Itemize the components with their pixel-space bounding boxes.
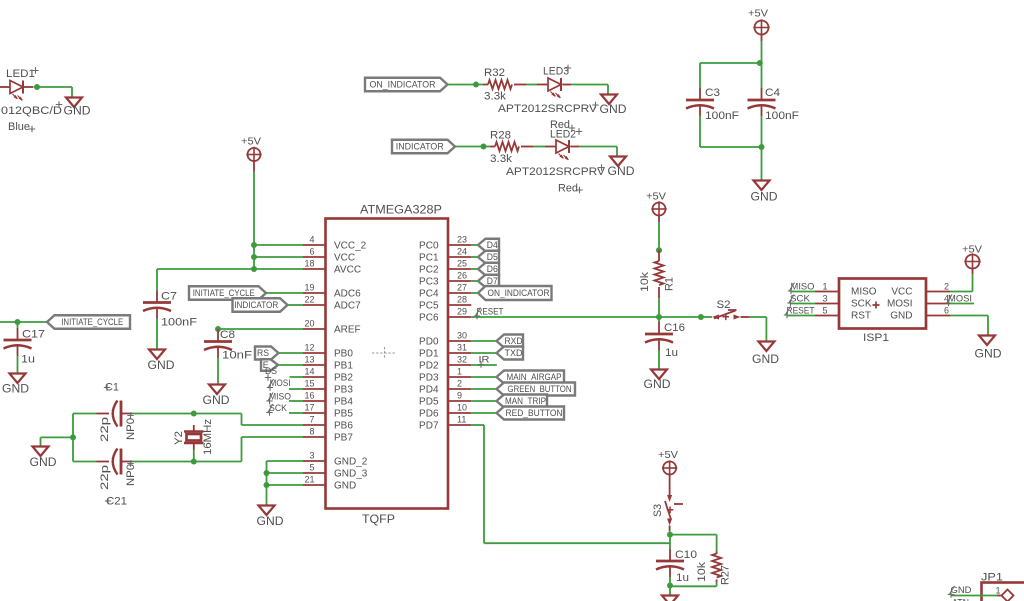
ground (C16)	[644, 370, 671, 392]
net flag ON_INDICATOR (PC4)	[478, 286, 552, 300]
wire down	[765, 317, 767, 342]
wire pin 32 IR net	[471, 364, 497, 366]
svg-text:NP0: NP0	[125, 418, 137, 440]
wire pin 11 PD7	[471, 424, 484, 426]
svg-text:1u: 1u	[21, 354, 35, 366]
svg-text:10: 10	[457, 403, 467, 413]
svg-text:15: 15	[304, 379, 314, 389]
svg-text:25: 25	[457, 259, 467, 269]
svg-text:C10: C10	[675, 549, 697, 561]
node RESET at R1/C16	[656, 314, 662, 320]
wire to ground	[761, 147, 763, 181]
wire down	[607, 85, 609, 95]
switch S3	[652, 495, 683, 531]
C21 cross	[105, 498, 111, 504]
svg-text:21: 21	[304, 475, 314, 485]
net flag D4	[478, 239, 499, 252]
svg-text:26: 26	[457, 271, 467, 281]
ground (C10, clipped at page bottom)	[662, 596, 678, 601]
svg-text:8: 8	[309, 427, 314, 437]
svg-text:PB5: PB5	[334, 409, 353, 420]
svg-text:INITIATE_CYCLE: INITIATE_CYCLE	[193, 288, 255, 298]
svg-text:Y2: Y2	[173, 431, 185, 445]
svg-text:Red: Red	[558, 183, 578, 195]
IC pin 15 PB3	[303, 379, 353, 396]
IC pin 1 PD3	[419, 367, 471, 384]
node on wire at R32	[473, 82, 479, 88]
wire PD7 down	[483, 425, 485, 543]
node LED1 cathode junction	[34, 84, 40, 90]
svg-text:TXD: TXD	[505, 348, 523, 358]
ISP1 pin 3 SCK	[815, 294, 872, 310]
svg-text:PC1: PC1	[419, 253, 439, 264]
ground (crystal)	[30, 447, 57, 470]
svg-text:PD0: PD0	[419, 337, 439, 348]
wire AREF row	[218, 328, 303, 330]
svg-text:MAIN_AIRGAP: MAIN_AIRGAP	[507, 372, 562, 382]
wire GND vertical	[266, 461, 268, 506]
IC pin 8 PB7	[303, 427, 353, 444]
wire stub pin 17	[289, 412, 303, 414]
svg-text:20: 20	[304, 319, 314, 329]
net label MISO (PB4)	[266, 392, 291, 405]
net flag D7	[478, 275, 499, 288]
svg-text:C4: C4	[765, 87, 780, 99]
IC pin 23 PC0	[419, 235, 471, 252]
svg-text:6: 6	[944, 306, 949, 316]
wire pin to D4 flag	[471, 244, 478, 246]
LED LED1	[1, 68, 62, 133]
capacitor C4	[748, 87, 800, 122]
LED1 cross	[29, 126, 35, 132]
wire bottom rail right	[194, 461, 242, 463]
IC origin crosshair	[372, 347, 396, 359]
svg-text:30: 30	[457, 331, 467, 341]
svg-text:PC4: PC4	[419, 289, 439, 300]
wire pin to D6 flag	[471, 268, 478, 270]
wire +5V stub	[972, 269, 974, 275]
net flag ON_INDICATOR	[365, 78, 448, 92]
svg-text:INITIATE_CYCLE: INITIATE_CYCLE	[61, 317, 123, 327]
net flag RS (PB0)	[255, 347, 279, 360]
wire VCC pin to +5V	[950, 291, 973, 293]
svg-text:10nF: 10nF	[222, 350, 252, 362]
svg-text:10k: 10k	[639, 271, 651, 292]
capacitor C16	[645, 322, 685, 359]
svg-text:22: 22	[304, 295, 314, 305]
svg-text:AREF: AREF	[334, 325, 361, 336]
wire junction to C4	[761, 63, 763, 88]
wire top rail right	[194, 413, 242, 415]
svg-text:MOSI: MOSI	[887, 299, 913, 310]
net label IR	[478, 355, 490, 368]
IC pin 2 PD4	[419, 379, 471, 396]
svg-text:16MHz: 16MHz	[202, 419, 214, 455]
wire MISO stub	[791, 291, 815, 293]
IC pin 24 PC1	[419, 247, 471, 264]
wire junction left to C3 branch	[700, 62, 762, 64]
IC pin 17 PB5	[303, 403, 353, 420]
node VCC row	[251, 254, 257, 260]
net label SCK (ISP)	[787, 294, 810, 307]
svg-text:GND: GND	[30, 457, 57, 469]
svg-text:18: 18	[304, 259, 314, 269]
svg-text:NP0: NP0	[125, 464, 137, 486]
net label SCK (PB5)	[266, 403, 287, 416]
ground (C17)	[2, 374, 29, 396]
svg-text:GND: GND	[2, 384, 29, 396]
net flag GREEN_BUTTON	[497, 383, 576, 396]
svg-text:1: 1	[996, 586, 1001, 596]
svg-text:D6: D6	[487, 264, 498, 274]
svg-text:+5V: +5V	[962, 244, 982, 256]
svg-text:AVCC: AVCC	[334, 265, 361, 276]
wire LED2 to ground	[579, 146, 617, 148]
wire to pin 7	[242, 424, 304, 426]
wire C17 to ground	[17, 356, 19, 374]
wire +5V to R1	[658, 222, 660, 250]
LED2 value cross	[598, 164, 604, 170]
IC pin 19 ADC6	[303, 283, 361, 300]
wire +5V down	[761, 35, 763, 42]
IC pin 14 PB2	[303, 367, 353, 384]
svg-text:9: 9	[457, 391, 462, 401]
svg-text:C3: C3	[705, 87, 720, 99]
wire down to C17	[17, 322, 19, 328]
svg-text:31: 31	[457, 343, 467, 353]
ground (IC)	[257, 506, 284, 529]
+5V supply (C3/C4)	[748, 8, 770, 36]
svg-text:22p: 22p	[99, 417, 111, 442]
svg-text:Blue: Blue	[8, 121, 30, 133]
node crystal top	[191, 411, 197, 417]
svg-text:100nF: 100nF	[705, 110, 739, 122]
svg-text:PB3: PB3	[334, 385, 353, 396]
svg-text:PD1: PD1	[419, 349, 439, 360]
wire RESET net from pin 29	[471, 316, 659, 318]
node C10/R27 bottom	[667, 583, 673, 589]
svg-text:3: 3	[309, 451, 314, 461]
svg-text:GND_2: GND_2	[334, 457, 368, 468]
wire R27 bottom	[716, 582, 718, 586]
svg-text:27: 27	[457, 283, 467, 293]
svg-text:ADC6: ADC6	[334, 289, 361, 300]
wire down to ground	[987, 316, 989, 336]
net flag RXD	[497, 335, 524, 348]
wire up to PB7 row	[241, 437, 243, 462]
ISP1 header	[839, 279, 926, 345]
wire pin 27 to ON_INDICATOR flag	[471, 292, 478, 294]
wire +5V down to VCC rows	[253, 172, 255, 270]
wire LED1 to GND	[37, 86, 72, 88]
svg-text:LED1: LED1	[6, 68, 35, 80]
C1 NP0 cross	[127, 412, 133, 418]
capacitor C10	[656, 549, 697, 584]
ground (LED1)	[64, 98, 91, 118]
svg-text:GND: GND	[975, 349, 1002, 361]
wire flag to pin 19	[266, 292, 303, 294]
svg-text:1: 1	[457, 367, 462, 377]
resistor R27	[696, 552, 732, 586]
ISP1 pin 2 VCC	[891, 282, 950, 298]
svg-text:S2: S2	[717, 299, 731, 311]
svg-text:GND: GND	[600, 104, 627, 116]
wire pin 5 GND_3	[267, 472, 304, 474]
wire C10 bottom	[669, 577, 671, 586]
IC pin 28 PC5	[419, 295, 471, 312]
IC pin 20 AREF	[303, 319, 361, 336]
IC pin 11 PD7	[419, 415, 471, 432]
svg-text:PC3: PC3	[419, 277, 439, 288]
net flag MAN_TRIP	[497, 395, 548, 408]
svg-text:+5V: +5V	[748, 8, 768, 20]
svg-text:LED2: LED2	[550, 129, 576, 141]
svg-text:R27: R27	[720, 565, 732, 585]
IC U1 ATMEGA328P (TQFP)	[326, 205, 449, 527]
wire R27 to C10 bottom	[670, 585, 717, 587]
capacitor C7	[143, 291, 197, 329]
node on wire at R28	[481, 144, 487, 150]
IC pin 29 PC6	[419, 307, 471, 324]
wire ON_INDICATOR to R32	[448, 84, 484, 86]
wire flag to pin 22	[288, 304, 304, 306]
net flag MAIN_AIRGAP	[497, 371, 565, 384]
svg-text:APT2012SRCPRV: APT2012SRCPRV	[506, 166, 606, 178]
wire AVCC row to C7 branch	[157, 268, 303, 270]
ISP1 pin 6 GND	[890, 306, 950, 322]
wire C1 to crystal top	[132, 413, 194, 415]
wire C21 to crystal bottom	[132, 461, 194, 463]
svg-text:D5: D5	[487, 252, 498, 262]
svg-text:12: 12	[304, 343, 314, 353]
svg-text:GND: GND	[890, 311, 912, 322]
svg-text:PB4: PB4	[334, 397, 353, 408]
wire down to C16	[658, 317, 660, 322]
svg-text:PD4: PD4	[419, 385, 439, 396]
svg-text:11: 11	[457, 415, 466, 425]
svg-text:14: 14	[304, 367, 314, 377]
wire R1 to RESET net	[658, 298, 660, 317]
svg-text:7: 7	[309, 415, 314, 425]
net flag RED_BUTTON	[497, 407, 565, 420]
net flag INDICATOR (ADC7)	[233, 298, 288, 312]
net label DS (PB2)	[265, 366, 277, 381]
svg-text:PD7: PD7	[419, 421, 439, 432]
svg-text:VCC: VCC	[891, 287, 912, 298]
svg-text:GND_3: GND_3	[334, 469, 368, 480]
svg-text:10k: 10k	[696, 561, 708, 582]
wire down to R27	[716, 535, 718, 552]
wire to pin 8	[242, 436, 304, 438]
node GND_3	[264, 470, 270, 476]
LED LED2	[506, 129, 606, 195]
+5V supply (VCC pins)	[241, 136, 262, 163]
svg-text:SCK: SCK	[790, 294, 810, 304]
svg-text:GND: GND	[257, 516, 284, 528]
wire PD7 right to S3 node	[484, 542, 670, 544]
svg-text:RST: RST	[851, 311, 871, 322]
resistor R28	[490, 130, 533, 166]
svg-text:R28: R28	[490, 130, 511, 142]
wire +5V stub	[253, 161, 255, 172]
svg-text:GND: GND	[148, 360, 175, 372]
svg-text:APT2012SRCPRV: APT2012SRCPRV	[498, 103, 598, 115]
wire pin 9 to MAN_TRIP	[471, 400, 496, 402]
svg-text:PB0: PB0	[334, 349, 353, 360]
svg-text:6: 6	[309, 247, 314, 257]
wire to R27 branch	[670, 534, 717, 536]
LED3 cross	[565, 65, 571, 71]
wire pin 3 GND_2	[267, 460, 304, 462]
wire +5V stub	[658, 216, 660, 223]
wire pin 1 to MAIN_AIRGAP	[471, 376, 496, 378]
wire to ground branch	[41, 436, 74, 438]
wire down to C8	[217, 329, 219, 331]
net label RESET (ISP)	[784, 306, 815, 319]
wire crystal to bottom rail	[193, 450, 195, 462]
svg-text:1: 1	[822, 282, 827, 292]
svg-text:5: 5	[822, 306, 827, 316]
svg-text:PC6: PC6	[419, 313, 439, 324]
capacitor C21	[97, 449, 138, 508]
wire R32 to LED3	[526, 84, 537, 86]
svg-text:ADC7: ADC7	[334, 301, 361, 312]
svg-text:S3: S3	[652, 504, 664, 517]
wire E to pin 13	[278, 364, 303, 366]
wire stub pin 15	[289, 388, 303, 390]
IC pin 4 VCC_2	[303, 235, 367, 252]
net flag INDICATOR	[392, 140, 455, 154]
svg-text:C16: C16	[664, 322, 685, 334]
svg-text:TQFP: TQFP	[362, 514, 395, 526]
IC pin 25 PC2	[419, 259, 471, 276]
wire RESET to S2	[659, 316, 701, 318]
net label MISO (ISP)	[788, 282, 815, 295]
svg-text:GND: GND	[751, 192, 778, 204]
net flag E (PB1)	[261, 359, 278, 371]
wire SCK stub	[791, 303, 815, 305]
wire pin 2 to GREEN_BUTTON	[471, 388, 496, 390]
svg-text:1u: 1u	[676, 572, 689, 584]
svg-text:R1: R1	[664, 277, 676, 291]
svg-text:GND: GND	[644, 379, 671, 391]
capacitor C17	[4, 328, 46, 366]
wire pin 21 GND	[267, 484, 304, 486]
+5V supply (R1)	[646, 191, 667, 217]
IC pin 32 PD2	[419, 355, 471, 372]
wire C4 down	[761, 116, 763, 147]
svg-text:C17: C17	[22, 329, 45, 341]
ground (ISP)	[975, 336, 1002, 361]
svg-text:JP1: JP1	[981, 572, 1003, 584]
svg-text:ON_INDICATOR: ON_INDICATOR	[370, 80, 436, 90]
capacitor C8	[204, 329, 252, 362]
svg-text:INDICATOR: INDICATOR	[234, 300, 278, 310]
node R1 top	[656, 247, 662, 253]
wire (net into page left edge to LED1 anode)	[0, 86, 10, 88]
capacitor C3	[686, 87, 739, 122]
svg-text:3.3k: 3.3k	[484, 91, 507, 103]
wire down to C7	[156, 269, 158, 291]
svg-text:SCK: SCK	[269, 403, 287, 413]
capacitor C1	[97, 382, 138, 443]
net label RESET	[474, 307, 504, 320]
IC pin 13 PB1	[303, 355, 353, 372]
wire pin to D7 flag	[471, 280, 478, 282]
ground (C8)	[203, 385, 230, 408]
IC pin 10 PD6	[419, 403, 471, 420]
svg-text:VCC_2: VCC_2	[334, 241, 367, 252]
node AVCC row	[251, 266, 257, 272]
IC pin 22 ADC7	[303, 295, 361, 312]
ground (C7)	[148, 350, 175, 373]
wire pin 30 to RXD	[471, 340, 496, 342]
wire stub pin 14	[290, 376, 304, 378]
node crystal bottom	[191, 459, 197, 465]
ground (LED3)	[600, 95, 627, 117]
svg-text:GND: GND	[64, 106, 91, 118]
wire node down to C10	[669, 535, 671, 549]
svg-text:5: 5	[309, 463, 314, 473]
+5V supply (ISP)	[962, 244, 982, 270]
svg-text:23: 23	[457, 235, 467, 245]
IC pin 18 AVCC	[303, 259, 361, 276]
wire stub pin 16	[289, 400, 303, 402]
wire +5V stub	[669, 475, 671, 497]
connector JP1	[981, 572, 1024, 601]
svg-text:GND: GND	[608, 166, 635, 178]
node S3/C10/R27	[667, 532, 673, 538]
svg-text:22p: 22p	[99, 465, 111, 490]
svg-text:ATN: ATN	[952, 598, 969, 601]
wire down to PB6 row	[241, 414, 243, 426]
svg-text:4: 4	[309, 235, 314, 245]
svg-text:VCC: VCC	[334, 253, 355, 264]
net label MOSI (PB3)	[267, 378, 291, 391]
crystal Y2	[173, 419, 214, 455]
net label MOSI (ISP right)	[945, 294, 972, 307]
LED1 value cross	[56, 101, 62, 107]
wire GND pin right	[950, 315, 988, 317]
wire S2 to ground branch	[749, 316, 766, 318]
LED2 cross	[576, 128, 582, 134]
wire bottom rail	[700, 146, 762, 148]
+5V supply (S3)	[658, 449, 678, 476]
svg-text:PD6: PD6	[419, 409, 439, 420]
wire C8 to ground	[217, 358, 219, 385]
node at S2	[698, 314, 704, 320]
wire down to C3	[699, 63, 701, 88]
ISP1 pin 4 MOSI	[887, 294, 950, 310]
node VCC_2 row	[251, 242, 257, 248]
svg-text:PB7: PB7	[334, 433, 353, 444]
svg-text:MAN_TRIP: MAN_TRIP	[505, 396, 546, 406]
svg-text:3.3k: 3.3k	[490, 153, 513, 165]
switch S2	[712, 299, 749, 320]
LED3 value cross	[592, 102, 598, 108]
svg-text:R32: R32	[484, 67, 505, 79]
svg-text:100nF: 100nF	[161, 317, 197, 329]
svg-text:D4: D4	[487, 240, 498, 250]
wire pin 10 to RED_BUTTON	[471, 412, 496, 414]
svg-text:GND: GND	[203, 395, 230, 407]
wire +5V to junction	[761, 41, 763, 63]
resistor R1	[639, 250, 676, 298]
IC pin 26 PC3	[419, 271, 471, 288]
svg-text:+5V: +5V	[241, 136, 261, 148]
net flag D5	[478, 251, 499, 264]
svg-text:RXD: RXD	[505, 336, 523, 346]
